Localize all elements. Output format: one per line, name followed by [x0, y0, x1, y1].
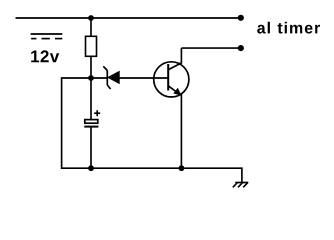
resistor R1	[86, 36, 97, 56]
wire: collector to timer terminal	[181, 47, 240, 49]
wire: bottom rail	[62, 167, 242, 169]
wire: bottom rail to ground	[241, 167, 243, 182]
wire: top supply rail	[16, 17, 241, 19]
node: junction top rail / resistor	[88, 15, 94, 21]
capacitor C1 (polarized)	[84, 110, 100, 126]
wire: rail to resistor	[90, 18, 92, 37]
zener diode D1	[103, 66, 119, 89]
transistor Q1 (NPN)	[154, 62, 189, 97]
node: cap / bottom rail	[88, 165, 94, 171]
terminal dot: collector output	[238, 45, 244, 51]
wire: capacitor to bottom rail	[90, 127, 92, 169]
label: 12v	[31, 50, 59, 62]
wire: zener to transistor base	[119, 77, 168, 79]
wire: resistor to node	[90, 56, 92, 78]
label: al timer	[257, 22, 320, 34]
wire: node to capacitor	[90, 78, 92, 120]
wire: emitter down	[180, 95, 182, 169]
wire: collector up	[180, 48, 182, 63]
battery symbol (12v)	[31, 34, 63, 39]
wire: left branch down	[61, 77, 63, 169]
node: resistor/zener/cap junction	[88, 75, 94, 81]
terminal dot: top rail to timer	[238, 15, 244, 21]
ground symbol	[233, 183, 249, 188]
wire: node left	[62, 77, 91, 79]
wire: node to zener	[91, 77, 107, 79]
node: emitter / bottom rail	[179, 165, 185, 171]
